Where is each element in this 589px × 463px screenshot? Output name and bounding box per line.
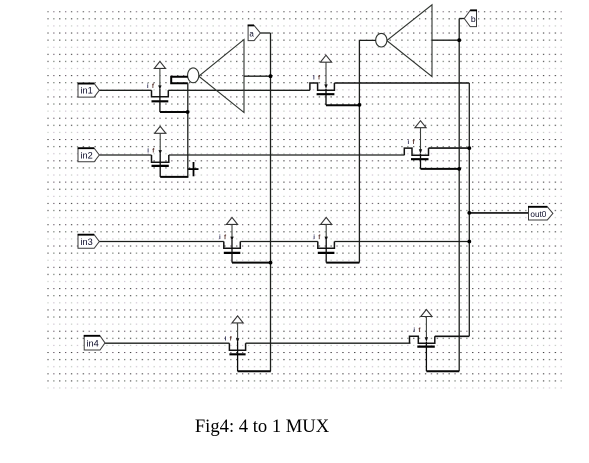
svg-text:i: i [413, 327, 415, 334]
svg-text:in3: in3 [80, 237, 92, 247]
svg-text:out0: out0 [530, 210, 546, 219]
svg-text:i: i [147, 83, 149, 90]
svg-text:i: i [313, 74, 315, 81]
svg-text:i: i [147, 148, 149, 155]
svg-text:i: i [313, 234, 315, 241]
svg-text:i: i [408, 139, 410, 146]
svg-text:in4: in4 [86, 338, 98, 348]
svg-text:i: i [225, 336, 227, 343]
svg-text:in2: in2 [80, 150, 92, 160]
svg-text:a: a [249, 29, 254, 38]
svg-text:in1: in1 [80, 86, 92, 96]
svg-text:b: b [471, 14, 476, 24]
svg-text:i: i [219, 234, 221, 241]
